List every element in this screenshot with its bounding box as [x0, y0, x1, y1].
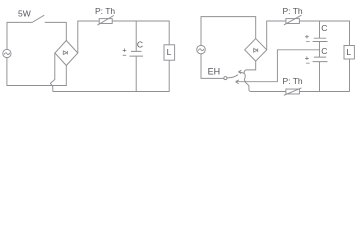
thermistor strike line	[97, 15, 114, 25]
AC tilde inside G2	[198, 49, 203, 51]
AC source G2	[197, 45, 206, 54]
wire: thermistor to load L top	[112, 21, 169, 45]
wire: AC source bottom to bottom AC rail to bridge bottom lead	[7, 58, 66, 86]
wire: load bottom down and DC bottom rail back left	[53, 60, 169, 91]
wire: squiggle to cap midpoint rail	[246, 50, 320, 82]
wire: AC source bottom to EH contact	[201, 54, 224, 79]
diode symbol inside bridge 2	[254, 49, 258, 53]
capacitor C1 plates	[313, 38, 328, 41]
bridge rectifier diamond 2	[245, 39, 267, 62]
svg-text:EH: EH	[208, 67, 221, 77]
wire: AC source top to bridge top	[201, 17, 256, 46]
wire: branch down to capacitor C1	[319, 21, 321, 38]
wire: bridge left (DC-) down with crossover jog to DC bottom rail	[50, 53, 54, 92]
thermistor P:Th 3 rect on bottom rail	[286, 89, 300, 94]
wire: between capacitors	[319, 42, 321, 58]
wire: thermistor 2 to load L2 top	[299, 21, 349, 46]
wire: branch down to capacitor C	[135, 21, 137, 51]
capacitor C plates	[130, 51, 144, 56]
label minus	[123, 54, 127, 56]
load L2 rect	[344, 46, 354, 60]
bridge rectifier diamond	[55, 41, 78, 66]
thermistor P:Th rect	[99, 19, 112, 24]
wire: capacitor C2 bottom to bottom rail	[319, 62, 321, 92]
wire: bottom rail from selector to load L2 bottom	[251, 59, 350, 92]
diode symbol inside bridge	[63, 51, 67, 55]
svg-text:L: L	[167, 47, 172, 57]
switch SW blade	[32, 15, 44, 22]
svg-text:C: C	[321, 46, 327, 56]
wire: capacitor bottom to DC bottom rail	[135, 56, 137, 91]
svg-text:5W: 5W	[18, 8, 31, 18]
svg-text:−: −	[306, 37, 311, 46]
svg-text:−: −	[306, 58, 311, 67]
wire: switch to bridge top lead	[45, 22, 67, 40]
load L rect	[164, 45, 175, 60]
selector blade upper with arrowhead	[227, 70, 244, 78]
thermistor 2 strike line	[284, 15, 302, 25]
capacitor C2 plates	[313, 57, 328, 62]
svg-text:C: C	[321, 23, 327, 33]
AC source G1	[3, 49, 11, 57]
wire: bridge right (DC+) up to upper rail, to thermistor	[78, 21, 99, 53]
AC tilde inside G1	[4, 53, 9, 55]
thermistor P:Th 2 rect	[286, 19, 300, 24]
EH contact terminal circle	[224, 77, 227, 80]
svg-text:C: C	[137, 39, 143, 49]
svg-text:P: Th: P: Th	[283, 6, 303, 16]
wire: top rail from AC source to switch pivot	[7, 22, 32, 49]
svg-text:P: Th: P: Th	[283, 76, 303, 86]
wire: bridge bottom lead with crossover squiggle	[244, 61, 255, 82]
wire: bridge right up to upper rail to thermistor 2	[267, 21, 286, 50]
svg-text:+: +	[122, 45, 127, 54]
thermistor 3 strike line	[284, 88, 302, 95]
svg-text:P: Th: P: Th	[95, 6, 115, 16]
svg-text:L: L	[346, 47, 351, 57]
selector blade lower with arrowhead	[236, 80, 251, 92]
